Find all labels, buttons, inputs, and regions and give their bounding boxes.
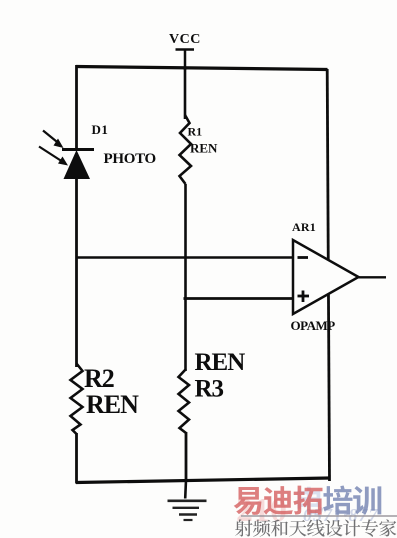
svg-text:REN: REN: [190, 141, 218, 156]
wire middle rail lower: [185, 432, 188, 481]
svg-text:D1: D1: [92, 122, 109, 137]
svg-text:R3: R3: [195, 376, 224, 403]
svg-text:REN: REN: [195, 349, 246, 376]
wire left rail upper: [75, 65, 78, 150]
svg-text:R2: R2: [84, 364, 114, 393]
resistor R3: [179, 369, 190, 433]
watermark logo characters 易迪拓培训: [234, 487, 262, 515]
resistor R2: [71, 364, 83, 435]
svg-text:AR1: AR1: [292, 220, 316, 234]
ground: [168, 480, 207, 520]
op-amp AR1: [293, 240, 359, 314]
wire inverting input: [77, 256, 294, 259]
wire middle rail middle: [184, 184, 187, 371]
wire top rail: [76, 67, 328, 70]
resistor R1: [180, 115, 192, 184]
wire left rail middle: [75, 179, 78, 367]
wire middle rail upper: [184, 69, 187, 119]
wire right rail: [327, 69, 329, 481]
svg-text:REN: REN: [86, 390, 139, 419]
watermark underline: [241, 515, 397, 517]
svg-text:PHOTO: PHOTO: [104, 151, 156, 167]
wire output: [359, 276, 387, 278]
wire left rail lower: [75, 433, 78, 484]
watermark logo text: [234, 486, 397, 537]
watermark logo: [236, 492, 379, 529]
power VCC: [169, 32, 201, 70]
wire bottom rail: [76, 478, 330, 483]
watermark tagline 射频和天线设计专家: [235, 519, 253, 536]
svg-text:OPAMP: OPAMP: [291, 318, 336, 333]
photodiode D1: [39, 131, 94, 180]
svg-text:VCC: VCC: [169, 32, 201, 47]
wire non-inverting input: [184, 297, 294, 300]
svg-text:R1: R1: [188, 125, 203, 139]
watermark faint glyph: [297, 487, 323, 515]
